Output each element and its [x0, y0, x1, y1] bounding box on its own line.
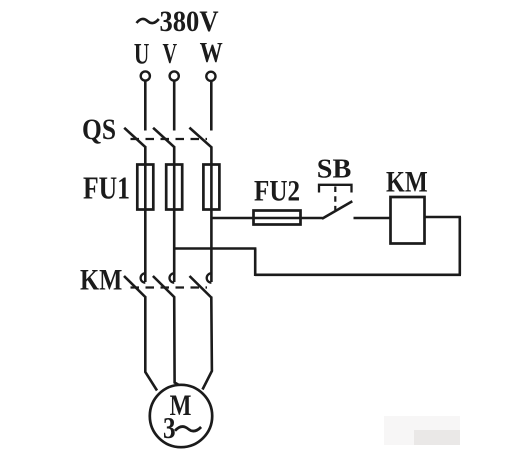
wire V KM contact to motor [174, 297, 180, 386]
fuse FU2 [254, 211, 301, 225]
wire U fuse to KM contact [144, 166, 147, 282]
wire right rail down [458, 217, 461, 275]
svg-text:QS: QS [82, 113, 116, 146]
wire U QS to fuse [144, 147, 147, 167]
svg-text:KM: KM [386, 166, 428, 199]
fuse FU2 label [254, 175, 300, 208]
SB button cap [319, 185, 352, 193]
contactor coil KM label [386, 166, 428, 199]
svg-text:V: V [163, 38, 178, 70]
SB plunger dashed [334, 187, 336, 211]
wire W to FU2 (control branch) [211, 217, 322, 220]
QS blade pole 2 [153, 128, 175, 148]
terminal V [170, 71, 179, 80]
wire W terminal to QS [210, 81, 213, 131]
label ~380V tilde [137, 19, 159, 23]
svg-text:W: W [200, 38, 223, 69]
QS blade pole 1 [124, 128, 146, 148]
contactor coil KM [391, 197, 425, 244]
QS linkage dashed [131, 138, 208, 140]
fuse FU1 pole 2 [166, 165, 182, 210]
motor letter M [170, 389, 192, 422]
label V [163, 38, 178, 70]
terminal W [206, 72, 215, 81]
svg-text:380V: 380V [160, 5, 219, 38]
contactor KM main contacts label [80, 264, 122, 297]
svg-text:KM: KM [80, 264, 122, 297]
terminal U [141, 71, 150, 80]
KM fixed contact arc pole 2 [169, 273, 174, 282]
svg-text:FU2: FU2 [254, 175, 300, 208]
watermark blob dark [414, 430, 460, 445]
KM blade pole 2 [153, 276, 175, 298]
motor M circle [150, 385, 212, 447]
KM fixed contact arc pole 1 [141, 273, 146, 282]
wire V fuse to KM contact [173, 166, 176, 282]
watermark blob light [384, 416, 460, 445]
wire SB to KM coil [354, 217, 391, 220]
fuse FU1 pole 1 [137, 165, 153, 210]
fuse FU1 label [83, 170, 130, 206]
motor label 3~ [163, 410, 176, 445]
KM linkage dashed [131, 286, 208, 288]
wire return to phase V [174, 247, 256, 250]
wire KM coil to right rail [425, 216, 462, 219]
switch QS label [82, 113, 116, 146]
motor label tilde [175, 427, 201, 432]
svg-text:3: 3 [163, 410, 176, 445]
svg-text:FU1: FU1 [83, 170, 130, 206]
KM fixed contact arc pole 3 [207, 273, 212, 282]
label 380V [160, 5, 219, 38]
wire V terminal to QS [173, 81, 176, 131]
wire W fuse to KM contact [210, 166, 213, 282]
wire bottom return [255, 273, 461, 276]
QS blade pole 3 [189, 128, 212, 148]
label W [200, 38, 223, 69]
label U [134, 37, 150, 70]
fuse FU1 pole 3 [203, 165, 219, 210]
svg-text:SB: SB [317, 154, 352, 184]
wire return riser [254, 249, 257, 277]
KM blade pole 1 [124, 276, 146, 298]
pushbutton SB label [317, 154, 352, 184]
svg-text:U: U [134, 37, 150, 70]
wire U KM contact to motor [145, 297, 157, 391]
KM blade pole 3 [190, 276, 212, 298]
wire W QS to fuse [210, 147, 213, 167]
wire W KM contact to motor [203, 297, 212, 390]
wire U terminal to QS [144, 81, 147, 131]
SB contact blade [322, 201, 352, 219]
wire V QS to fuse [173, 147, 176, 167]
